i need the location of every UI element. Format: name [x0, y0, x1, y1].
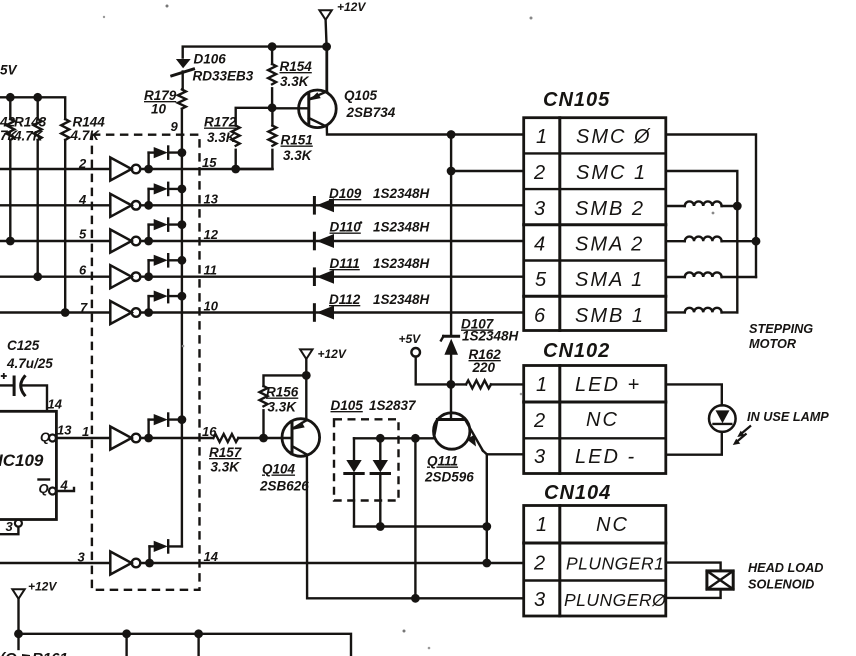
svg-text:Q: Q — [39, 481, 49, 496]
inductor SMB2 winding — [666, 201, 738, 206]
svg-text:6: 6 — [79, 263, 87, 278]
capacitor C125 4.7u/25 — [0, 338, 53, 411]
wire Q111 base rail — [354, 437, 434, 439]
resistor R156 3.3K — [260, 375, 307, 438]
svg-text:CN102: CN102 — [543, 340, 610, 362]
node rail/R154 — [268, 42, 277, 51]
svg-text:SMC Ø: SMC Ø — [576, 126, 652, 148]
svg-text:STEPPING: STEPPING — [749, 322, 813, 336]
node D105 right top — [376, 434, 385, 443]
power +12V mid — [300, 347, 347, 375]
svg-text:+12V: +12V — [337, 0, 366, 14]
diode row2 to bus — [144, 147, 186, 174]
wire SMC1 common — [666, 171, 738, 312]
svg-text:2: 2 — [78, 156, 87, 171]
svg-text:3: 3 — [534, 198, 545, 220]
svg-text:4: 4 — [534, 234, 545, 256]
node D105 right bottom — [376, 522, 385, 531]
node vertical top — [411, 434, 420, 443]
resistor R154 3.3K — [268, 47, 312, 108]
wire +12V rail top — [183, 47, 327, 92]
inverter row2 — [110, 158, 272, 181]
svg-text:1S2348H: 1S2348H — [373, 220, 430, 235]
inverter row7 — [110, 301, 523, 324]
diode D111 1S2348H — [314, 256, 429, 285]
svg-text:1S2348H: 1S2348H — [373, 292, 430, 307]
svg-text:6: 6 — [534, 305, 546, 327]
svg-text:R143: R143 — [14, 115, 47, 130]
node rail mid2 — [194, 629, 203, 638]
node R172/row15 — [231, 165, 240, 174]
node rail/+12V — [322, 42, 331, 51]
svg-text:HEAD LOAD: HEAD LOAD — [748, 561, 823, 575]
svg-text:13: 13 — [204, 191, 219, 206]
diode row5 to bus — [144, 219, 186, 246]
resistor R162 220 — [451, 347, 524, 388]
diode D109 1S2348H — [314, 186, 429, 213]
transistor Q111 2SD596 — [424, 384, 524, 484]
svg-text:R154: R154 — [280, 59, 313, 74]
wire input row 7 — [0, 311, 110, 313]
svg-text:7: 7 — [80, 300, 88, 315]
svg-text:2: 2 — [533, 410, 545, 432]
node +12V/R156/Q104 emitter — [302, 371, 311, 380]
node plunger0 junction — [411, 594, 420, 603]
power +5V rail left — [0, 63, 65, 120]
svg-text:+5V: +5V — [399, 332, 422, 346]
wire input row 2 — [0, 168, 110, 170]
svg-text:3.3K: 3.3K — [211, 460, 241, 475]
inverter row5 — [110, 230, 523, 253]
node SMA2 tap — [752, 237, 761, 246]
svg-text:LED +: LED + — [575, 374, 641, 396]
label stepping motor — [749, 322, 813, 351]
svg-text:+12V: +12V — [28, 580, 57, 594]
connector CN105 — [524, 89, 666, 331]
wire LED- vertical — [486, 454, 488, 563]
svg-text:1S2837: 1S2837 — [369, 398, 417, 413]
svg-text:5: 5 — [535, 269, 547, 291]
svg-text:1S2348H: 1S2348H — [462, 329, 519, 344]
svg-text:PLUNGER1: PLUNGER1 — [566, 554, 664, 574]
wire input row 3 — [0, 562, 110, 564]
svg-text:R172: R172 — [204, 115, 237, 130]
node Q105 base — [268, 103, 277, 112]
diode row7 to bus — [144, 290, 186, 317]
svg-text:4: 4 — [60, 478, 69, 493]
diode D112 1S2348H — [314, 292, 429, 320]
svg-text:3.3K: 3.3K — [207, 130, 237, 145]
node rail left — [14, 629, 23, 638]
svg-text:1S2348H: 1S2348H — [373, 256, 430, 271]
svg-text:12: 12 — [204, 227, 219, 242]
svg-text:NC: NC — [586, 409, 619, 431]
svg-text:3: 3 — [534, 446, 545, 468]
svg-text:1: 1 — [536, 126, 547, 148]
inverter row4 — [110, 194, 523, 217]
inverter row6 — [110, 265, 523, 288]
label head load solenoid — [748, 561, 823, 592]
svg-text:SMA 2: SMA 2 — [575, 234, 644, 256]
wire SMC1 pin2 — [447, 135, 524, 336]
svg-text:13: 13 — [57, 423, 72, 438]
node pin1/D107 branch — [447, 130, 456, 139]
wire +12V bottom rail — [19, 634, 352, 656]
wire input row 4 — [0, 204, 110, 206]
resistor R151 3.3K — [236, 108, 313, 169]
svg-text:CN104: CN104 — [544, 482, 611, 504]
diode D107 1S2348H — [441, 317, 519, 385]
node rail mid1 — [122, 629, 131, 638]
svg-text:3.3K: 3.3K — [283, 148, 313, 163]
dashed driver box — [92, 135, 200, 590]
connector CN102 — [524, 340, 666, 474]
LED in-use lamp — [666, 384, 736, 454]
svg-text:R156: R156 — [266, 385, 299, 400]
svg-text:IN USE LAMP: IN USE LAMP — [747, 410, 829, 424]
node Q104 base — [259, 434, 268, 443]
pin 3 clock — [0, 519, 22, 534]
svg-text:2SB626: 2SB626 — [259, 479, 309, 494]
label bottom cut text — [0, 650, 68, 656]
pin 4 Qbar output — [39, 478, 75, 497]
resistor R179 10 — [144, 88, 186, 117]
svg-text:D111: D111 — [330, 256, 360, 271]
node +5V/R143 — [33, 93, 42, 102]
pin 13 Q output — [40, 423, 110, 445]
inverter row16 — [110, 427, 213, 450]
svg-text:1S2348H: 1S2348H — [373, 186, 430, 201]
node LED- vertical/bottom wire — [482, 522, 491, 531]
wire SMC0 common — [666, 135, 756, 278]
svg-text:+12V: +12V — [318, 347, 347, 361]
node +5V/D107/Q111 — [447, 380, 456, 389]
node SMB2 tap — [733, 202, 742, 211]
svg-text:4: 4 — [78, 192, 87, 207]
svg-text:2SD596: 2SD596 — [424, 470, 474, 485]
svg-text:D110: D110 — [330, 220, 362, 235]
svg-text:Q111: Q111 — [427, 454, 458, 469]
wire vertical to plunger0 — [414, 438, 416, 598]
LED light arrows — [733, 426, 751, 446]
svg-text:11: 11 — [204, 263, 218, 278]
resistor R143 4.7K — [13, 97, 47, 276]
svg-text:14: 14 — [204, 549, 219, 564]
svg-text:(O: (O — [0, 650, 17, 656]
IC109 flip-flop — [0, 397, 63, 520]
svg-text:IC109: IC109 — [0, 451, 44, 470]
diode row16 to bus — [144, 414, 186, 443]
diode D110 1S2348H — [314, 220, 429, 249]
connector CN104 — [524, 482, 667, 616]
resistor R172 3.3K — [204, 108, 272, 169]
inverter row14 — [110, 552, 523, 575]
svg-text:C125: C125 — [7, 338, 40, 353]
svg-text:1: 1 — [536, 514, 547, 536]
svg-text:D109: D109 — [329, 186, 362, 201]
node +5V/R142 — [6, 93, 15, 102]
svg-text:Q105: Q105 — [344, 88, 378, 103]
svg-text:3: 3 — [534, 589, 545, 611]
wire input row 5 — [0, 240, 110, 242]
svg-text:SMA 1: SMA 1 — [575, 269, 644, 291]
power +5V — [399, 332, 451, 384]
svg-text:Q104: Q104 — [262, 462, 296, 477]
diode row14 to bus — [145, 540, 182, 567]
svg-text:220: 220 — [472, 360, 496, 375]
svg-text:D106: D106 — [194, 52, 227, 67]
svg-text:SMB 2: SMB 2 — [575, 198, 645, 220]
svg-text:SOLENOID: SOLENOID — [748, 578, 814, 592]
svg-text:3: 3 — [78, 550, 86, 565]
wire D105 bottom — [354, 525, 487, 527]
svg-text:5: 5 — [79, 227, 87, 242]
power +12V bottom — [12, 580, 57, 634]
svg-text:15: 15 — [202, 155, 217, 170]
resistor R142 4.7K — [0, 97, 19, 241]
inductor SMA2 winding — [666, 237, 756, 242]
node R143/row6 — [33, 272, 42, 281]
svg-text:4.7K: 4.7K — [13, 129, 44, 144]
diode row6 to bus — [144, 254, 186, 281]
node R142/row5 — [6, 237, 15, 246]
svg-text:R157: R157 — [209, 445, 243, 460]
zener diode D106 RD33EB3 — [172, 52, 254, 90]
wire bus from R179 into dashed box, node 9 — [181, 109, 183, 547]
svg-text:5V: 5V — [0, 63, 18, 78]
transistor Q105 2SB734 — [272, 47, 524, 135]
svg-text:CN105: CN105 — [543, 89, 610, 111]
svg-text:4.7u/25: 4.7u/25 — [6, 356, 53, 371]
svg-text:SMB 1: SMB 1 — [575, 305, 645, 327]
head load solenoid — [666, 563, 733, 598]
svg-text:1: 1 — [536, 374, 547, 396]
resistor R157 3.3K — [209, 434, 264, 475]
diode pair D105 1S2837 — [331, 398, 418, 527]
svg-text:SMC 1: SMC 1 — [576, 162, 647, 184]
svg-text:3: 3 — [6, 519, 14, 534]
svg-text:R151: R151 — [281, 133, 313, 148]
svg-text:14: 14 — [48, 397, 63, 412]
svg-text:2SB734: 2SB734 — [346, 105, 396, 120]
node R144/row7 — [61, 308, 70, 317]
svg-text:10: 10 — [151, 102, 167, 117]
inductor SMB1 winding — [666, 308, 738, 313]
svg-text:D112: D112 — [329, 292, 361, 307]
diode row4 to bus — [144, 183, 186, 210]
svg-text:3.3K: 3.3K — [280, 74, 310, 89]
svg-text:NC: NC — [596, 514, 629, 536]
svg-text:LED -: LED - — [575, 446, 636, 468]
resistor R144 4.7K — [61, 115, 105, 313]
svg-text:2: 2 — [533, 162, 545, 184]
svg-text:MOTOR: MOTOR — [749, 337, 797, 351]
svg-text:1: 1 — [82, 424, 89, 439]
svg-text:9: 9 — [171, 119, 179, 134]
node plunger1 junction — [482, 559, 491, 568]
svg-text:D105: D105 — [331, 398, 364, 413]
svg-text:3.3K: 3.3K — [268, 400, 298, 415]
inductor SMA1 winding — [666, 272, 756, 277]
svg-text:10: 10 — [204, 299, 219, 314]
wire input row 6 — [0, 276, 110, 278]
svg-text:2: 2 — [533, 553, 545, 575]
svg-text:RD33EB3: RD33EB3 — [193, 69, 254, 84]
svg-text:PLUNGERØ: PLUNGERØ — [564, 590, 667, 610]
transistor Q104 2SB626 — [259, 375, 524, 598]
svg-text:R161: R161 — [32, 650, 68, 656]
